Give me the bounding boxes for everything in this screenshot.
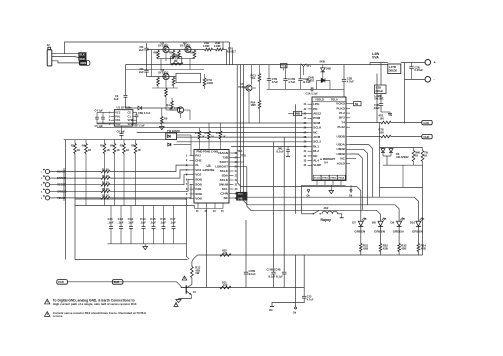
svg-text:1K: 1K	[88, 148, 91, 152]
svg-text:+: +	[434, 61, 436, 65]
svg-text:J2: J2	[47, 43, 51, 47]
svg-text:1K: 1K	[424, 154, 427, 157]
svg-text:PUMB: PUMB	[239, 85, 247, 89]
svg-text:100: 100	[380, 130, 385, 134]
svg-text:R6: R6	[110, 144, 114, 148]
svg-text:RED: RED	[80, 57, 86, 61]
svg-text:VO2: VO2	[195, 173, 201, 177]
svg-text:Y3AGN: Y3AGN	[218, 151, 229, 155]
svg-text:5B: 5B	[355, 102, 358, 106]
svg-text:.1uF: .1uF	[160, 220, 166, 224]
svg-text:or less.: or less.	[53, 314, 63, 318]
svg-text:VO1: VO1	[195, 168, 201, 172]
svg-text:0.45uF: 0.45uF	[415, 68, 424, 72]
svg-text:T3B: T3B	[222, 156, 229, 160]
svg-text:R3: R3	[71, 144, 75, 148]
svg-text:Rapay: Rapay	[321, 218, 332, 222]
svg-text:C1: C1	[128, 115, 132, 119]
svg-text:C6B 4.7uF: C6B 4.7uF	[138, 111, 151, 115]
svg-text:AB12: AB12	[313, 112, 321, 116]
svg-text:RL 1K: RL 1K	[102, 195, 109, 198]
svg-text:U3DB: U3DB	[337, 134, 346, 138]
svg-text:SI-23DJ: SI-23DJ	[180, 44, 191, 48]
svg-text:VLBP: VLBP	[313, 163, 321, 167]
svg-text:D81DE: D81DE	[389, 69, 398, 73]
svg-text:CE: CE	[128, 110, 132, 114]
svg-text:U3DA: U3DA	[337, 143, 346, 147]
svg-text:High current path of a single,: High current path of a single, safe half…	[53, 302, 137, 306]
svg-text:A3LD: A3LD	[337, 161, 346, 165]
svg-text:AL4: AL4	[313, 159, 319, 163]
svg-text:SCL2: SCL2	[313, 140, 321, 144]
svg-text:PHL: PHL	[115, 115, 121, 119]
svg-text:PAD: PAD	[58, 280, 64, 284]
svg-text:1M5: 1M5	[251, 103, 257, 107]
svg-text:VO2: VO2	[115, 122, 121, 126]
svg-text:R8: R8	[131, 144, 135, 148]
svg-text:LPH: LPH	[313, 102, 319, 106]
svg-text:5T1: 5T1	[307, 64, 312, 68]
svg-text:w2W31B: w2W31B	[202, 168, 215, 172]
svg-text:SCL: SCL	[222, 187, 228, 191]
svg-text:.1uF: .1uF	[118, 220, 124, 224]
svg-text:VOB: VOB	[195, 197, 202, 201]
svg-text:SCLK: SCLK	[220, 178, 229, 182]
svg-text:C2A 0.1uF: C2A 0.1uF	[306, 91, 319, 95]
svg-text:14B: 14B	[238, 197, 243, 200]
svg-text:C4 1uF: C4 1uF	[95, 108, 104, 112]
svg-text:4.7uF: 4.7uF	[347, 79, 354, 83]
svg-text:R7: R7	[120, 144, 124, 148]
svg-text:AZL3ZB4Z: AZL3ZB4Z	[396, 155, 409, 159]
svg-text:SCLK: SCLK	[220, 169, 229, 173]
svg-text:42B: 42B	[401, 246, 406, 250]
svg-text:U4: U4	[324, 161, 328, 165]
svg-text:.1uF: .1uF	[108, 220, 114, 224]
svg-text:(BT) 1uF: (BT) 1uF	[135, 124, 146, 128]
svg-text:DB1DE: DB1DE	[375, 97, 384, 101]
svg-text:1K: 1K	[138, 148, 141, 152]
svg-text:JK2: JK2	[324, 206, 329, 210]
svg-text:SOM: SOM	[313, 121, 320, 125]
svg-text:C24N: C24N	[220, 192, 228, 196]
svg-text:C8 2uF: C8 2uF	[117, 130, 126, 134]
svg-text:D10: D10	[410, 221, 416, 225]
svg-text:U3DB: U3DB	[337, 152, 346, 156]
svg-text:RL 1K: RL 1K	[102, 182, 109, 185]
svg-text:C2D: C2D	[423, 121, 429, 125]
svg-text:R9: R9	[164, 117, 168, 121]
svg-text:BLK: BLK	[80, 53, 85, 57]
svg-text:RE: RE	[154, 51, 158, 55]
svg-text:4.7uF: 4.7uF	[307, 297, 314, 301]
svg-text:.1uF: .1uF	[128, 220, 134, 224]
svg-text:1K: 1K	[126, 148, 129, 152]
svg-text:Y3DLD: Y3DLD	[315, 97, 324, 101]
svg-text:BAULT: BAULT	[227, 49, 236, 53]
svg-text:D8: D8	[372, 221, 376, 225]
svg-text:POM: POM	[313, 116, 320, 120]
svg-text:C2B: C2B	[195, 187, 202, 191]
svg-text:B.1uF: B.1uF	[303, 80, 311, 84]
svg-text:200uF: 200uF	[375, 89, 383, 93]
svg-text:R5: R5	[100, 144, 104, 148]
svg-text:RE: RE	[169, 51, 173, 55]
svg-text:ACM: ACM	[313, 135, 320, 139]
svg-text:RE: RE	[190, 51, 194, 55]
svg-text:VSSO: VSSO	[330, 178, 336, 180]
svg-text:RL 1K: RL 1K	[102, 188, 109, 191]
svg-text:140R: 140R	[214, 44, 220, 48]
svg-text:GREEN: GREEN	[393, 229, 404, 233]
svg-text:VPB: VPB	[128, 118, 133, 122]
svg-text:VCKD: VCKD	[336, 102, 345, 106]
svg-text:Ok: Ok	[269, 308, 273, 312]
svg-text:SOB: SOB	[195, 192, 202, 196]
svg-text:.1uF: .1uF	[140, 220, 146, 224]
svg-text:VCC: VCC	[281, 64, 287, 68]
svg-text:VPB: VPB	[128, 122, 133, 126]
svg-text:1K: 1K	[415, 154, 418, 157]
svg-text:2uF: 2uF	[139, 48, 144, 52]
svg-text:GREEN: GREEN	[412, 229, 423, 233]
svg-text:D7: D7	[352, 221, 356, 225]
svg-text:CL: CL	[195, 163, 199, 167]
svg-text:2uF: 2uF	[114, 97, 119, 101]
svg-text:T4: T4	[341, 120, 345, 124]
svg-text:B.1uF: B.1uF	[277, 149, 285, 153]
svg-text:140R: 140R	[207, 81, 213, 85]
svg-text:B.1uF B.1uF: B.1uF B.1uF	[269, 276, 284, 279]
svg-text:PA2: PA2	[195, 154, 201, 158]
svg-text:2HD: 2HD	[114, 280, 120, 284]
svg-text:PL32: PL32	[338, 125, 346, 129]
svg-text:CHE: CHE	[195, 158, 201, 162]
svg-text:D4B: D4B	[326, 66, 331, 70]
svg-text:1W: 1W	[195, 271, 199, 275]
svg-text:L4TB: L4TB	[389, 65, 396, 69]
svg-text:U1 SI-T9Me: U1 SI-T9Me	[117, 106, 133, 110]
svg-text:SOB: SOB	[195, 178, 202, 182]
svg-text:47uF: 47uF	[272, 80, 279, 84]
svg-text:PLKD: PLKD	[337, 106, 346, 110]
svg-text:42B: 42B	[383, 246, 388, 250]
svg-text:SI-23DJ: SI-23DJ	[158, 70, 169, 74]
svg-text:LDBOUT: LDBOUT	[215, 165, 228, 169]
svg-text:BF2: BF2	[339, 116, 345, 120]
svg-text:Current sense resistor R13 sho: Current sense resistor R13 should have F…	[53, 311, 147, 315]
svg-text:5KB: 5KB	[320, 60, 325, 64]
svg-text:C2 MLCC4B: C2 MLCC4B	[267, 268, 281, 271]
svg-text:100: 100	[380, 116, 385, 120]
svg-text:VSSO: VSSO	[322, 178, 328, 180]
svg-text:1K: 1K	[117, 148, 120, 152]
svg-text:VC2: VC2	[115, 110, 121, 114]
svg-text:1K: 1K	[107, 148, 110, 152]
svg-text:RL 1K: RL 1K	[102, 168, 109, 171]
svg-text:SCLK: SCLK	[313, 126, 322, 130]
svg-text:VVA: VVA	[372, 55, 379, 59]
svg-text:GREEN: GREEN	[354, 229, 365, 233]
svg-text:SNUM: SNUM	[219, 183, 228, 187]
svg-text:RL 1K: RL 1K	[102, 175, 109, 178]
svg-text:1K: 1K	[77, 148, 80, 152]
svg-text:RL2: RL2	[313, 149, 319, 153]
svg-text:TDA: TDA	[238, 150, 243, 153]
svg-text:.1uF: .1uF	[170, 220, 176, 224]
svg-text:4.7uF: 4.7uF	[288, 80, 295, 84]
svg-text:RL1: RL1	[313, 144, 319, 148]
svg-text:PL2: PL2	[339, 111, 345, 115]
svg-text:VD1: VD1	[115, 118, 121, 122]
svg-text:CHD: CHD	[423, 135, 429, 139]
svg-text:SDA: SDA	[222, 174, 229, 178]
svg-text:GREEN: GREEN	[374, 229, 385, 233]
svg-text:R4: R4	[82, 144, 86, 148]
svg-text:D9: D9	[391, 221, 395, 225]
svg-text:42B: 42B	[421, 246, 426, 250]
svg-text:B.1uF: B.1uF	[249, 272, 257, 276]
svg-text:SOUT: SOUT	[220, 160, 229, 164]
svg-text:SOB: SOB	[195, 182, 202, 186]
svg-text:VCCO: VCCO	[314, 178, 321, 180]
svg-text:U3DB: U3DB	[337, 147, 346, 151]
svg-text:2uF: 2uF	[139, 70, 144, 74]
svg-text:GRN: GRN	[80, 61, 86, 65]
svg-text:.1uF: .1uF	[150, 220, 156, 224]
svg-text:VSSA: VSSA	[338, 177, 344, 180]
svg-text:SI-23DJ: SI-23DJ	[158, 44, 169, 48]
svg-text:42B: 42B	[363, 246, 368, 250]
svg-text:140R: 140R	[203, 44, 209, 48]
